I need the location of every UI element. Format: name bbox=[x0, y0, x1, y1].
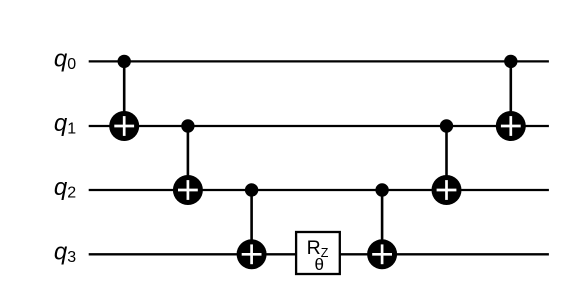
wire q1 bbox=[89, 125, 549, 127]
CNOT CX2 target on q2 bbox=[173, 175, 203, 205]
gate RZ(theta) U1 label RZ bbox=[307, 237, 329, 260]
wire q2 bbox=[89, 189, 549, 191]
gate RZ(theta) U1 parameter theta bbox=[314, 255, 323, 274]
CNOT CX3 target on q3 bbox=[237, 239, 267, 269]
CNOT CX4 control dot on q2 bbox=[375, 183, 388, 196]
CNOT CX1 connector q0-q1 bbox=[123, 61, 126, 126]
CNOT CX5 control dot on q1 bbox=[440, 119, 453, 132]
svg-text:q2: q2 bbox=[54, 174, 76, 201]
CNOT CX3 connector q2-q3 bbox=[250, 190, 253, 254]
qubit label q0 bbox=[54, 46, 76, 73]
CNOT CX1 target on q1 bbox=[109, 111, 139, 141]
qubit label q2 bbox=[54, 174, 76, 201]
CNOT CX5 target on q2 bbox=[432, 175, 462, 205]
wire q0 bbox=[89, 60, 549, 62]
CNOT CX6 control dot on q0 bbox=[504, 55, 517, 68]
qubit label q1 bbox=[54, 110, 76, 137]
svg-text:q1: q1 bbox=[54, 110, 76, 137]
CNOT CX2 control dot on q1 bbox=[181, 119, 194, 132]
CNOT CX1 control dot on q0 bbox=[118, 55, 131, 68]
CNOT CX5 connector q1-q2 bbox=[445, 126, 448, 190]
CNOT CX6 target on q1 bbox=[496, 111, 526, 141]
CNOT CX3 control dot on q2 bbox=[245, 183, 258, 196]
gate RZ(theta) U1 box on q3 bbox=[296, 232, 340, 274]
svg-text:θ: θ bbox=[314, 255, 323, 274]
svg-text:q0: q0 bbox=[54, 46, 76, 73]
CNOT CX6 connector q0-q1 bbox=[509, 61, 512, 126]
qubit label q3 bbox=[54, 239, 76, 266]
svg-text:q3: q3 bbox=[54, 239, 76, 266]
CNOT CX4 connector q2-q3 bbox=[381, 190, 384, 254]
CNOT CX4 target on q3 bbox=[367, 239, 397, 269]
CNOT CX2 connector q1-q2 bbox=[187, 126, 190, 190]
wire q3 bbox=[89, 253, 549, 255]
